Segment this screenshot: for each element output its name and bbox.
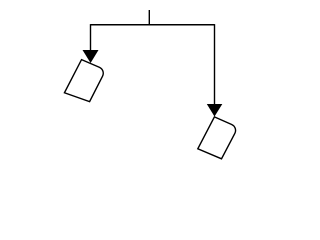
- arrowhead left: [83, 50, 99, 63]
- wire: incoming stub from top: [148, 10, 150, 25]
- arrowhead right: [207, 104, 223, 117]
- node: left tilted card shape: [64, 60, 103, 102]
- wire: right vertical drop: [214, 24, 216, 105]
- node: right tilted card shape: [198, 117, 236, 159]
- wire: left vertical drop: [90, 24, 92, 51]
- wire: horizontal bus: [91, 24, 215, 26]
